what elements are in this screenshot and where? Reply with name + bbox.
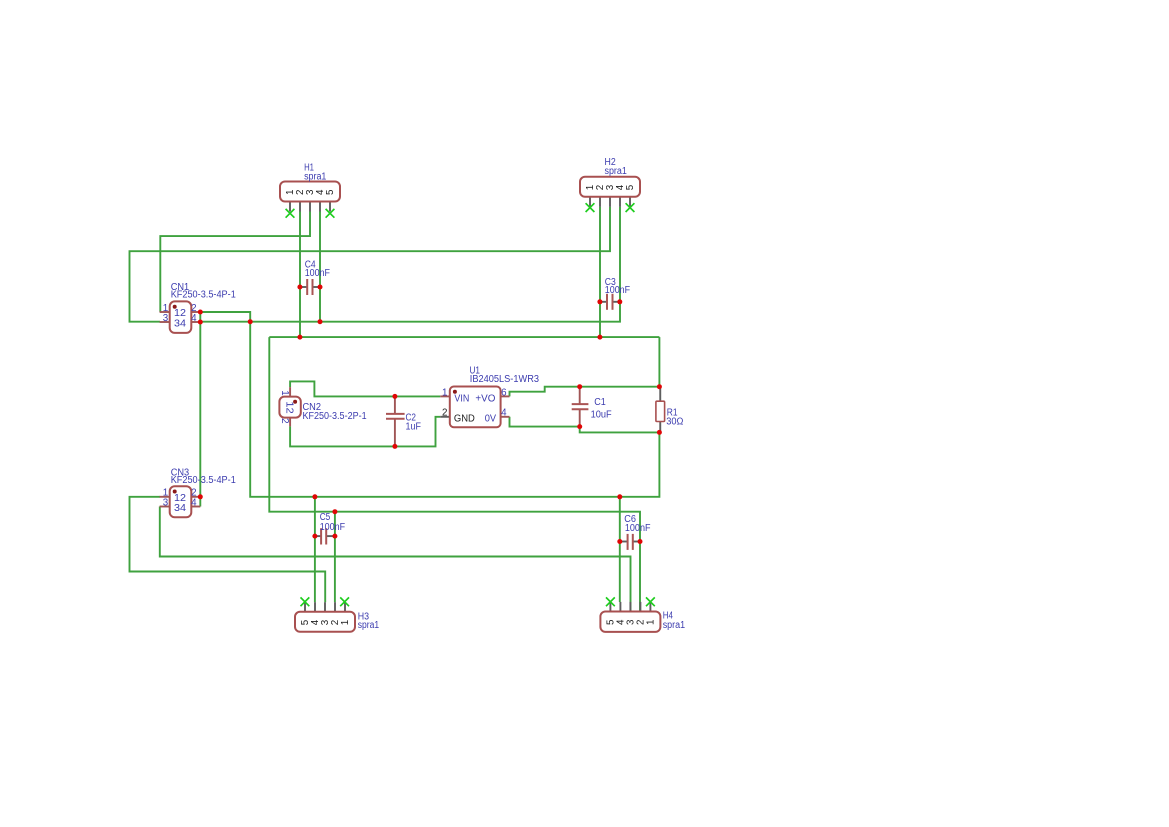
svg-text:+VO: +VO — [475, 393, 495, 404]
svg-text:1: 1 — [442, 387, 447, 398]
svg-text:12: 12 — [284, 401, 295, 414]
svg-text:1: 1 — [340, 620, 351, 625]
svg-text:1uF: 1uF — [406, 422, 421, 433]
svg-text:spra1: spra1 — [358, 620, 380, 631]
svg-text:KF250-3.5-4P-1: KF250-3.5-4P-1 — [171, 475, 236, 486]
svg-text:GND: GND — [454, 413, 475, 424]
svg-text:3: 3 — [163, 313, 169, 324]
svg-text:34: 34 — [174, 318, 187, 329]
svg-text:100nF: 100nF — [305, 268, 330, 279]
svg-text:KF250-3.5-2P-1: KF250-3.5-2P-1 — [303, 411, 367, 422]
svg-text:6: 6 — [501, 387, 507, 398]
svg-text:34: 34 — [174, 503, 187, 514]
svg-text:VIN: VIN — [454, 393, 469, 404]
svg-text:4: 4 — [191, 498, 197, 509]
svg-text:100nF: 100nF — [320, 522, 345, 533]
svg-text:KF250-3.5-4P-1: KF250-3.5-4P-1 — [171, 290, 236, 301]
svg-text:1: 1 — [646, 620, 657, 625]
svg-text:30Ω: 30Ω — [666, 417, 684, 428]
svg-text:spra1: spra1 — [663, 620, 686, 631]
svg-text:spra1: spra1 — [304, 172, 327, 183]
svg-text:3: 3 — [163, 498, 169, 509]
svg-text:4: 4 — [191, 313, 197, 324]
svg-text:100nF: 100nF — [625, 523, 651, 534]
svg-text:IB2405LS-1WR3: IB2405LS-1WR3 — [470, 374, 540, 385]
svg-text:2: 2 — [279, 418, 290, 423]
svg-text:0V: 0V — [485, 413, 497, 424]
svg-text:4: 4 — [501, 408, 507, 419]
svg-text:C1: C1 — [594, 397, 606, 408]
svg-text:100nF: 100nF — [605, 285, 630, 296]
svg-text:spra1: spra1 — [605, 166, 628, 177]
svg-text:1: 1 — [279, 390, 290, 395]
svg-text:10uF: 10uF — [591, 410, 612, 421]
svg-text:5: 5 — [625, 184, 636, 190]
svg-text:5: 5 — [325, 189, 336, 195]
svg-text:2: 2 — [442, 408, 447, 419]
